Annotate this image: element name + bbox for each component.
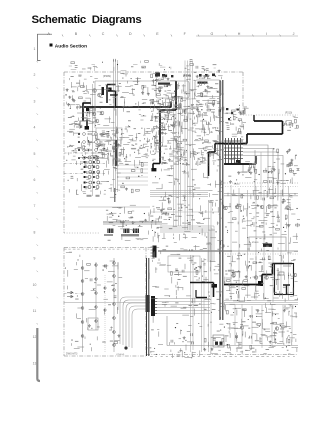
thick trace bottom h xyxy=(190,282,214,284)
transistor Q14 xyxy=(81,307,84,310)
connector CN602 pins xyxy=(155,299,157,314)
resistor R97 xyxy=(141,169,143,173)
junction xyxy=(285,173,286,174)
capacitor C44 xyxy=(192,342,194,345)
value label xyxy=(204,258,206,261)
dark tail bundle V1 xyxy=(114,188,116,202)
wire bottom-right vertical 7 xyxy=(291,306,293,342)
binding fold bar xyxy=(37,328,40,381)
capacitor C20 xyxy=(249,167,251,170)
connector CN602 body xyxy=(151,296,155,316)
thick trace right stair r2 xyxy=(246,134,248,144)
capacitor C45 xyxy=(213,338,216,340)
supply rail y193.5 xyxy=(224,193,298,195)
junction blob at bundle end xyxy=(124,346,127,349)
dark bundle bottom-left a xyxy=(146,258,148,356)
wire stub 6 xyxy=(118,184,149,186)
thick trace drop x87 xyxy=(86,120,88,130)
resistor R99 xyxy=(136,189,140,191)
thick trace bottom v xyxy=(213,283,215,298)
svg-text:12: 12 xyxy=(33,335,37,339)
ground xyxy=(117,143,120,146)
resistor R57 xyxy=(263,170,267,172)
wire CN602 fan 6 xyxy=(155,313,210,315)
svg-text:6: 6 xyxy=(34,178,36,182)
ground xyxy=(152,79,155,82)
value label xyxy=(102,130,105,133)
electrolytic capacitor grid xyxy=(84,156,100,189)
ground xyxy=(196,75,199,78)
resistor R3 xyxy=(116,159,120,161)
IC input caps row xyxy=(155,73,215,78)
transistor Q34 xyxy=(92,112,96,116)
dotted rail y186 xyxy=(225,186,298,188)
power amp inner tee xyxy=(283,285,290,294)
resistor R12 xyxy=(152,99,154,103)
wire xyxy=(248,337,250,339)
board outline main bottom edge xyxy=(146,354,298,356)
wire bundle V2 line 3 xyxy=(189,61,191,231)
output rail y345.5 xyxy=(167,345,298,347)
wire xyxy=(155,143,159,145)
capacitor C52 xyxy=(190,59,193,61)
junction blob F xyxy=(86,108,89,111)
grid column letters A-J xyxy=(47,32,308,37)
value label xyxy=(165,148,168,151)
junction xyxy=(172,116,173,117)
junction xyxy=(104,148,105,149)
resistor R51 xyxy=(177,143,179,147)
resistor R47 xyxy=(196,115,200,117)
wire y207 xyxy=(78,206,150,208)
transistor Q5 xyxy=(254,276,258,280)
junction xyxy=(88,140,89,141)
capacitor C21 xyxy=(269,180,271,183)
value label xyxy=(255,292,259,295)
wire xyxy=(186,65,188,67)
value label xyxy=(98,151,102,154)
resistor R84 xyxy=(163,212,167,214)
wire xyxy=(152,205,154,207)
value label xyxy=(153,72,156,75)
value label xyxy=(273,204,277,207)
signal rail continuation xyxy=(232,250,298,252)
junction xyxy=(226,113,227,114)
bus ladder knot xyxy=(224,138,243,164)
junction xyxy=(156,76,157,77)
ground xyxy=(203,348,206,351)
wire bundle H1 line 1 xyxy=(150,190,208,192)
dark bus vertical left line xyxy=(219,80,221,320)
signal rail from CN601 xyxy=(158,250,232,252)
board outline bottom-left box top xyxy=(64,247,160,249)
label detail xyxy=(148,254,222,358)
value label xyxy=(272,273,274,276)
capacitor C43 xyxy=(191,333,193,336)
wire xyxy=(120,148,123,150)
value label xyxy=(197,134,201,137)
wiring detail xyxy=(225,107,247,145)
junction xyxy=(296,208,297,209)
junction xyxy=(117,64,118,65)
capacitor C48 xyxy=(75,66,78,68)
junction xyxy=(215,76,216,77)
resistor R88 xyxy=(222,338,224,342)
inner block corner horizontal xyxy=(95,80,152,82)
wire xyxy=(118,189,120,191)
dark bar x102 xyxy=(102,87,105,95)
junction xyxy=(295,306,296,307)
resistor R82 xyxy=(243,309,247,311)
resistor R70 xyxy=(226,280,230,282)
thick trace bottom L2 h xyxy=(196,297,207,299)
transistor Q23 xyxy=(113,344,116,347)
wire bottom-right vertical 1 xyxy=(234,305,236,345)
wire bottom-right vertical 2 xyxy=(241,304,243,348)
wire xyxy=(271,322,273,324)
resistor R24 xyxy=(194,107,198,109)
thick trace main bus y107 xyxy=(83,106,172,108)
resistor R104 xyxy=(142,66,146,68)
signal input arrow 1 xyxy=(76,106,82,109)
label detail xyxy=(225,306,292,355)
capacitor C39 xyxy=(182,270,184,273)
resistor R65 xyxy=(237,204,241,206)
wire CN602 fan 5 xyxy=(155,310,210,312)
wire xyxy=(152,158,155,160)
resistor R48 xyxy=(159,123,163,125)
wire xyxy=(294,165,298,167)
transistor Q18 xyxy=(113,275,116,278)
amp box interior line 2 xyxy=(283,265,291,267)
wire bundle V2 line 2 xyxy=(187,61,189,231)
ground xyxy=(212,103,215,106)
wire xyxy=(173,208,175,210)
wire xyxy=(86,148,90,150)
inner box mid bottom xyxy=(168,256,200,272)
svg-text:DWG-M73: DWG-M73 xyxy=(66,353,78,356)
capacitor C37 xyxy=(168,200,170,203)
resistor R106 xyxy=(290,169,292,173)
value label xyxy=(87,143,91,146)
wire bottom-left vertical 4 xyxy=(117,262,119,310)
resistor R60 xyxy=(270,197,274,199)
top ruler line xyxy=(196,35,298,37)
coil T2 xyxy=(124,229,129,234)
value label xyxy=(292,315,297,318)
capacitor C10 xyxy=(183,110,185,113)
resistor R62 xyxy=(296,224,300,226)
ground xyxy=(68,96,71,99)
resistor R22 xyxy=(168,110,170,114)
capacitor C29 xyxy=(236,291,238,294)
wire xyxy=(250,258,254,260)
transistor Q35 xyxy=(100,111,104,115)
thick trace stair b xyxy=(159,110,161,164)
speaker terminal box xyxy=(213,335,224,347)
transistor Q17 xyxy=(113,262,116,265)
transistor Q6 xyxy=(265,276,269,280)
wire y302 xyxy=(64,302,150,304)
value label xyxy=(289,327,291,330)
wire bottom-mid vertical 2 xyxy=(192,255,194,350)
thick trace box1 vertical xyxy=(175,81,177,110)
resistor R98 xyxy=(126,177,130,179)
resistor R9 xyxy=(116,130,118,134)
label detail xyxy=(68,106,90,126)
ground xyxy=(245,275,248,278)
wire xyxy=(153,219,155,221)
resistor R92 xyxy=(117,220,121,222)
wire bundle V3 line 4 xyxy=(180,100,182,226)
capacitor C16 xyxy=(296,126,298,129)
resistor R50 xyxy=(198,111,200,115)
junction xyxy=(175,121,176,122)
resistor R4 xyxy=(83,146,85,150)
ground xyxy=(115,147,118,150)
wiring detail xyxy=(67,74,150,166)
section heading Audio Section xyxy=(50,43,88,49)
wire bottom-right vertical 5 xyxy=(271,304,273,346)
value label xyxy=(189,208,193,211)
junction xyxy=(196,267,197,268)
ground xyxy=(239,112,242,115)
output block left edge xyxy=(166,316,168,346)
resistor R15 xyxy=(172,97,174,101)
ground xyxy=(218,69,221,72)
value label xyxy=(209,99,212,102)
thick trace amp v1 xyxy=(261,275,263,285)
svg-text:H: H xyxy=(238,32,241,36)
resistor R26 xyxy=(159,111,163,113)
amp stage row 2 xyxy=(78,141,103,144)
ground xyxy=(67,103,70,106)
ground xyxy=(66,88,69,91)
wiring detail xyxy=(151,81,186,160)
resistor R105 xyxy=(190,64,194,66)
ground xyxy=(210,348,213,351)
wiring detail xyxy=(225,188,299,302)
junction xyxy=(249,261,250,262)
capacitor C41 xyxy=(196,270,198,273)
junction xyxy=(203,119,204,120)
grid label smudge 1 xyxy=(87,195,92,197)
wire bundle H2 line 3 xyxy=(160,230,210,262)
thick trace stair d xyxy=(152,164,154,172)
thick trace right stair top xyxy=(254,120,283,122)
resistor R103 xyxy=(71,62,75,64)
resistor R69 xyxy=(242,288,246,290)
wire bottom-mid vertical 3 xyxy=(201,258,203,352)
transistor Q20 xyxy=(113,303,116,306)
wire xyxy=(196,85,199,87)
ground xyxy=(281,201,284,204)
capacitor C36 xyxy=(159,216,161,219)
resistor R10 xyxy=(107,134,109,138)
ground xyxy=(288,149,291,152)
ground xyxy=(282,199,285,202)
wiring detail xyxy=(69,61,216,71)
value label xyxy=(97,284,101,287)
thick trace right stair b2 xyxy=(215,143,247,145)
resistor R54 xyxy=(154,139,156,143)
wiring detail xyxy=(149,250,224,358)
value label xyxy=(83,100,86,103)
value label xyxy=(151,129,154,132)
resistor R33 xyxy=(164,85,168,87)
svg-text:RY601: RY601 xyxy=(252,242,259,244)
ground xyxy=(161,132,164,135)
resistor R30 xyxy=(151,74,153,78)
dash-dot wire y163.5 xyxy=(64,163,106,165)
capacitor C38 xyxy=(188,223,191,225)
capacitor C55 xyxy=(287,164,289,167)
value label xyxy=(93,287,96,290)
wire stub 4 xyxy=(118,176,149,178)
resistor R53 xyxy=(183,139,187,141)
resistor R34 xyxy=(201,93,203,97)
value label xyxy=(113,157,116,160)
coil T1 xyxy=(108,229,113,234)
wire bottom-right vertical 3 xyxy=(251,306,253,344)
resistor R29 xyxy=(178,105,180,109)
transistor Q13 xyxy=(81,293,84,296)
grid label smudge 2 xyxy=(96,195,100,197)
wire xyxy=(281,163,285,165)
junction blob E xyxy=(258,281,263,286)
value label xyxy=(109,216,112,219)
capacitor C54 xyxy=(297,168,300,170)
wire bottom-left vertical 3 xyxy=(113,258,115,352)
capacitor C13 xyxy=(227,128,230,130)
resistor R95 xyxy=(131,189,133,193)
transistor Q4 xyxy=(232,274,236,278)
board outline bottom-left box left xyxy=(63,248,65,357)
value label xyxy=(242,227,246,230)
capacitor C15 xyxy=(285,123,287,126)
ground xyxy=(175,139,178,142)
supply rail y304.5 xyxy=(224,304,298,306)
wiring detail xyxy=(66,252,120,351)
wire stub 3 xyxy=(118,172,149,174)
transistor Q22 xyxy=(113,331,116,334)
capacitor C11 xyxy=(217,102,220,104)
wire xyxy=(154,148,156,150)
wire xyxy=(241,136,243,138)
dark segment bundle V1 xyxy=(115,140,118,166)
capacitor C23 xyxy=(272,167,275,169)
capacitor C46 xyxy=(90,278,92,281)
resistor R13 xyxy=(142,85,144,89)
capacitor C19 xyxy=(206,122,208,125)
transistor Q3 xyxy=(286,206,290,210)
capacitor C3 xyxy=(113,147,116,149)
ground xyxy=(290,161,293,164)
wire right board vertical 4 xyxy=(255,186,257,300)
wire knot fan 1 xyxy=(243,145,268,197)
value label xyxy=(141,84,146,87)
wire xyxy=(256,204,259,206)
resistor R100 xyxy=(121,186,125,188)
resistor R77 xyxy=(288,339,290,343)
value label xyxy=(195,127,200,130)
grid bracket xyxy=(77,190,79,195)
thick trace stair a xyxy=(160,109,176,111)
wire xyxy=(287,330,289,332)
junction xyxy=(268,172,269,173)
value label xyxy=(226,122,228,125)
wire xyxy=(195,132,197,134)
resistor R63 xyxy=(256,196,258,200)
svg-text:9: 9 xyxy=(34,257,36,261)
svg-text:(P209): (P209) xyxy=(103,74,111,78)
label detail xyxy=(88,62,217,71)
junction blob D xyxy=(212,284,218,288)
wire bottom-right vertical 6 xyxy=(282,305,284,344)
thick trace C-shape left xyxy=(106,85,108,104)
junction xyxy=(174,91,175,92)
transistor Q33 xyxy=(98,93,102,97)
thick trace right stair r1 xyxy=(282,121,284,134)
ground xyxy=(167,198,170,201)
ground xyxy=(256,309,259,312)
junction xyxy=(144,213,145,214)
value label xyxy=(108,134,110,137)
dotted rail y254 xyxy=(225,253,298,255)
value label xyxy=(244,108,246,111)
capacitor C8 xyxy=(157,100,159,103)
ground xyxy=(160,209,163,212)
resistor R108 xyxy=(289,164,293,166)
junction blob B xyxy=(85,126,89,130)
junction xyxy=(217,91,218,92)
resistor R39 xyxy=(231,110,235,112)
value label xyxy=(168,84,171,87)
transistor Q32 xyxy=(93,89,97,93)
ground xyxy=(196,108,199,111)
wire xyxy=(206,82,209,84)
thick trace right stair b3 xyxy=(209,151,216,153)
wiring detail xyxy=(224,303,298,354)
svg-text:11: 11 xyxy=(33,309,37,313)
ground xyxy=(276,181,279,184)
label detail xyxy=(97,128,148,168)
amp stage row 1 xyxy=(78,133,103,136)
capacitor C5 xyxy=(101,134,104,136)
amp box interior part xyxy=(279,272,284,275)
value label xyxy=(177,136,180,139)
ground xyxy=(203,75,206,78)
transistor Q15 xyxy=(81,321,84,324)
junction xyxy=(232,272,233,273)
power amp box outline xyxy=(275,264,294,295)
wire xyxy=(127,219,129,221)
wire xyxy=(207,78,210,80)
resistor R102 xyxy=(145,61,149,63)
label detail xyxy=(150,77,223,166)
thick trace amp v2 xyxy=(272,264,274,275)
junction xyxy=(166,85,167,86)
capacitor C12 xyxy=(163,76,165,79)
resistor R59 xyxy=(241,194,243,198)
junction xyxy=(259,174,260,175)
junction xyxy=(241,210,242,211)
svg-text:10: 10 xyxy=(33,283,37,287)
resistor R72 xyxy=(233,273,235,277)
arrow label xyxy=(75,124,80,126)
junction xyxy=(283,227,284,228)
thick trace right stair b1 xyxy=(247,133,283,135)
